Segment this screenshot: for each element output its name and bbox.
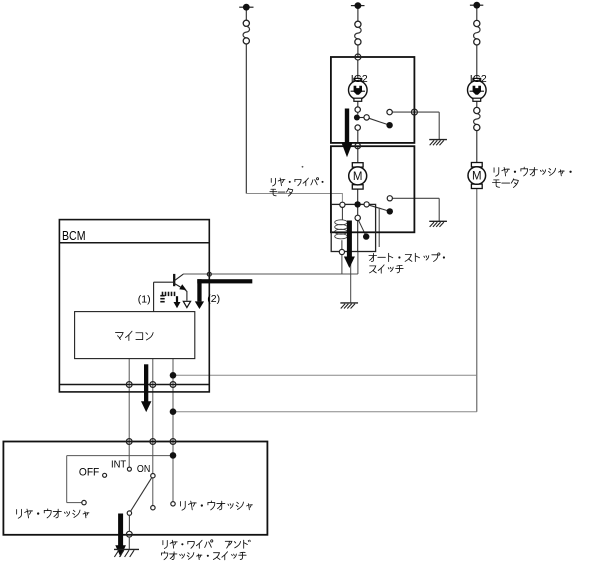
svg-text:BCM: BCM: [62, 228, 86, 243]
svg-text:ON: ON: [137, 464, 150, 475]
svg-text:INT: INT: [111, 460, 126, 471]
svg-text:M: M: [353, 171, 363, 183]
svg-text:(2): (2): [207, 293, 220, 305]
svg-text:M: M: [472, 171, 482, 183]
svg-text:IG2: IG2: [351, 73, 368, 85]
svg-text:IG2: IG2: [470, 73, 487, 85]
svg-text:(1): (1): [138, 293, 151, 305]
svg-text:OFF: OFF: [79, 467, 100, 479]
